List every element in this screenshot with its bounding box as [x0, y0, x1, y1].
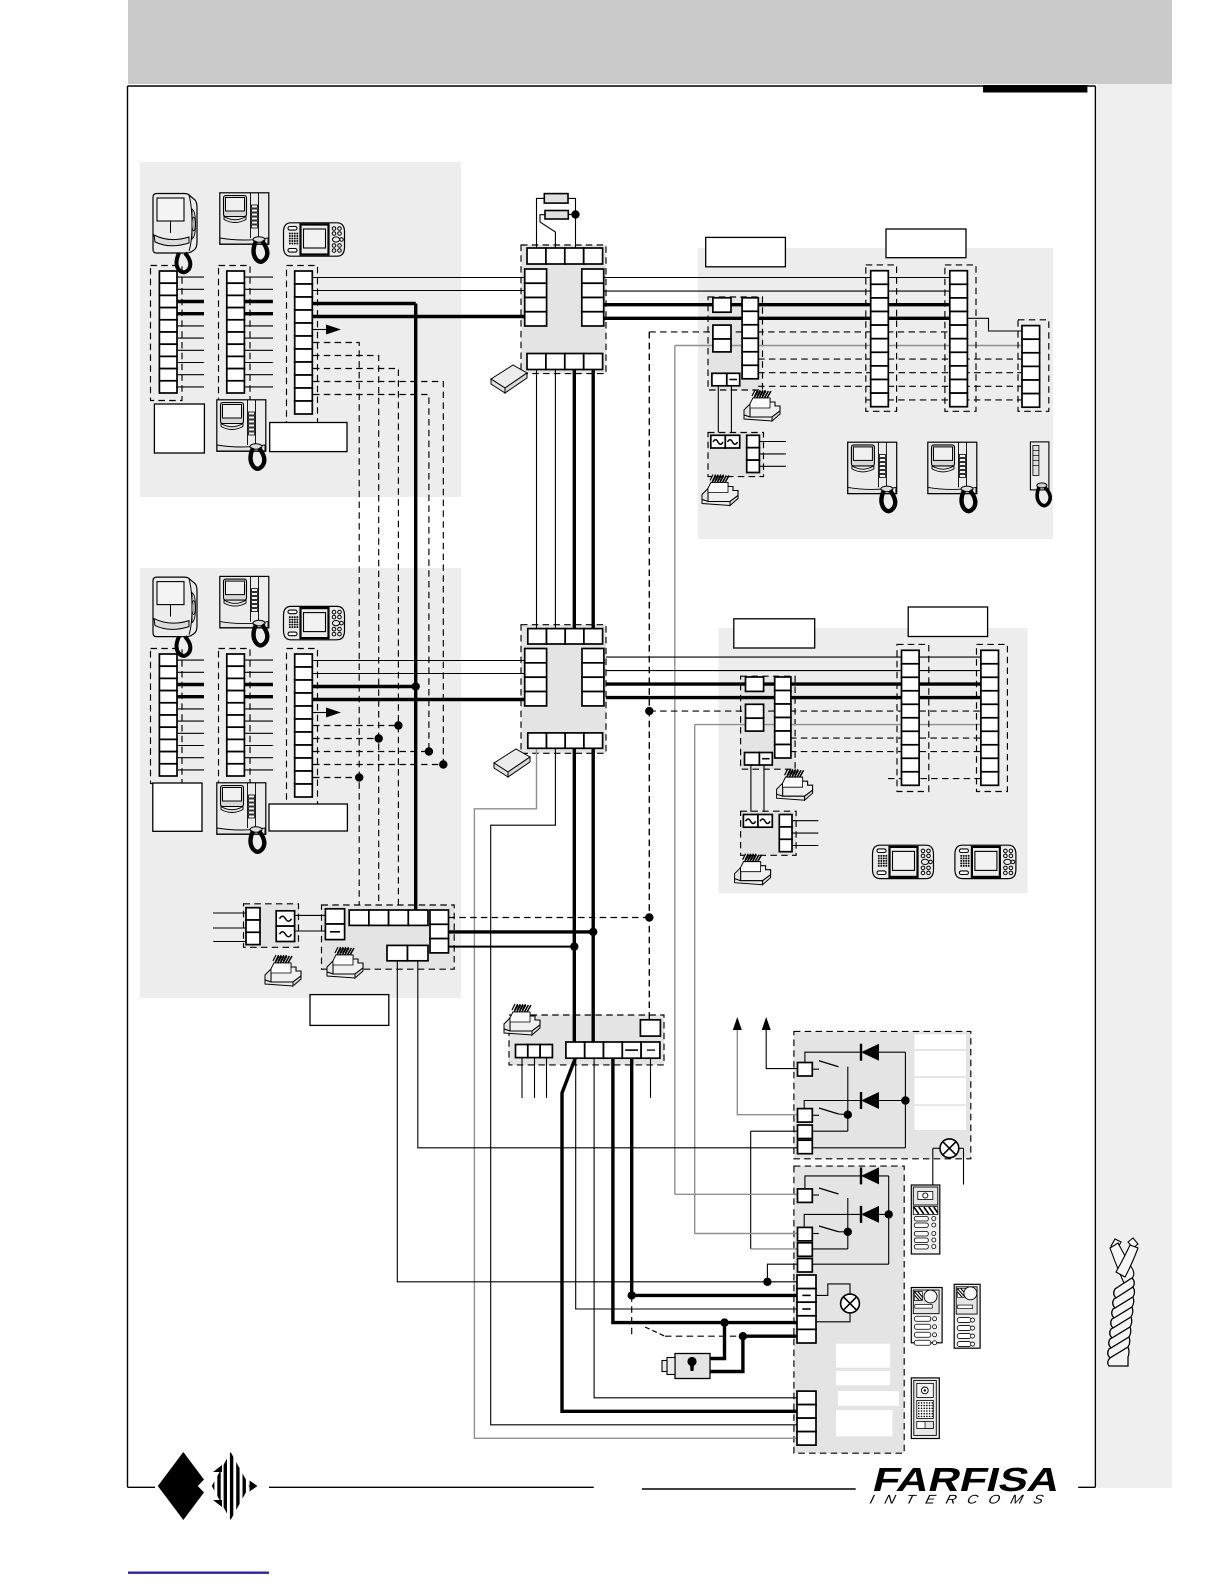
svg-text:INTERCOMS: INTERCOMS — [868, 1493, 1055, 1507]
